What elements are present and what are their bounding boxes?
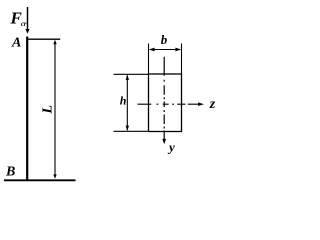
svg-text:L: L (41, 105, 56, 115)
h dimension line (126, 74, 129, 131)
dimension line L (53, 40, 56, 179)
b dimension line (149, 48, 181, 52)
force arrow F_cr (26, 7, 30, 34)
column AB (26, 37, 28, 181)
y axis centerline (162, 57, 166, 145)
svg-text:cr: cr (21, 20, 27, 28)
ground line (4, 179, 76, 181)
tick at A (27, 38, 60, 40)
label F_cr (10, 9, 27, 29)
svg-text:A: A (11, 36, 21, 51)
cross-section rectangle (149, 74, 182, 132)
svg-text:y: y (167, 140, 175, 155)
svg-text:b: b (161, 32, 168, 47)
h extension lines (114, 73, 149, 75)
z axis centerline (138, 102, 204, 106)
svg-text:B: B (5, 164, 15, 179)
b extension lines (148, 44, 150, 75)
svg-text:z: z (209, 97, 216, 112)
svg-text:h: h (120, 94, 127, 108)
